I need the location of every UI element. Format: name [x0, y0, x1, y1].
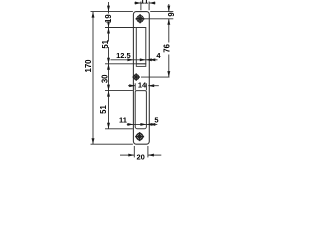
svg-text:20: 20 [137, 152, 145, 160]
dimension 14 arrows [128, 85, 135, 87]
svg-text:11: 11 [119, 116, 127, 125]
dimension 11 top extension lines [140, 2, 142, 11]
svg-text:170: 170 [84, 59, 93, 73]
extension line screw1 center [145, 18, 174, 20]
extension line plate top right [150, 11, 173, 13]
dimension 11 / 5 line [127, 123, 158, 125]
svg-text:76: 76 [162, 43, 171, 52]
svg-text:14: 14 [138, 80, 147, 89]
screw hole middle [133, 73, 140, 80]
dimension 20 arrows [120, 154, 134, 156]
extension line slot2 top [105, 90, 133, 92]
svg-text:12.5: 12.5 [116, 51, 131, 60]
screw hole top [136, 14, 145, 23]
extension line slot1 top [105, 27, 136, 29]
svg-text:9: 9 [167, 12, 176, 17]
dimension 14 extension lines [134, 83, 136, 90]
extension line screw3 axis [141, 76, 170, 78]
svg-text:19: 19 [104, 14, 113, 23]
latch slot (top) [136, 28, 146, 64]
extension line slot1 bottom [105, 63, 136, 65]
dimension 12.5 / 4 line [111, 59, 158, 61]
latch slot lip [136, 64, 146, 67]
plate outline [133, 12, 149, 145]
svg-text:51: 51 [101, 39, 110, 48]
extension line plate top left [91, 11, 133, 13]
dimension 170 line [92, 12, 94, 145]
dimension chain 19/51/30/51 line [108, 2, 110, 14]
dimension 9 [168, 4, 170, 12]
svg-text:30: 30 [101, 74, 110, 83]
svg-text:11: 11 [140, 0, 148, 6]
extension line slot2 bottom [105, 128, 133, 130]
svg-text:51: 51 [99, 105, 108, 114]
deadbolt slot (bottom) [135, 91, 146, 129]
dimension 11 arrows [134, 2, 141, 4]
dimension 76 [168, 19, 170, 43]
svg-text:5: 5 [154, 115, 158, 124]
extension line plate bottom left [91, 143, 133, 145]
dimension 20 extension lines [133, 146, 135, 157]
screw hole bottom [135, 132, 144, 141]
